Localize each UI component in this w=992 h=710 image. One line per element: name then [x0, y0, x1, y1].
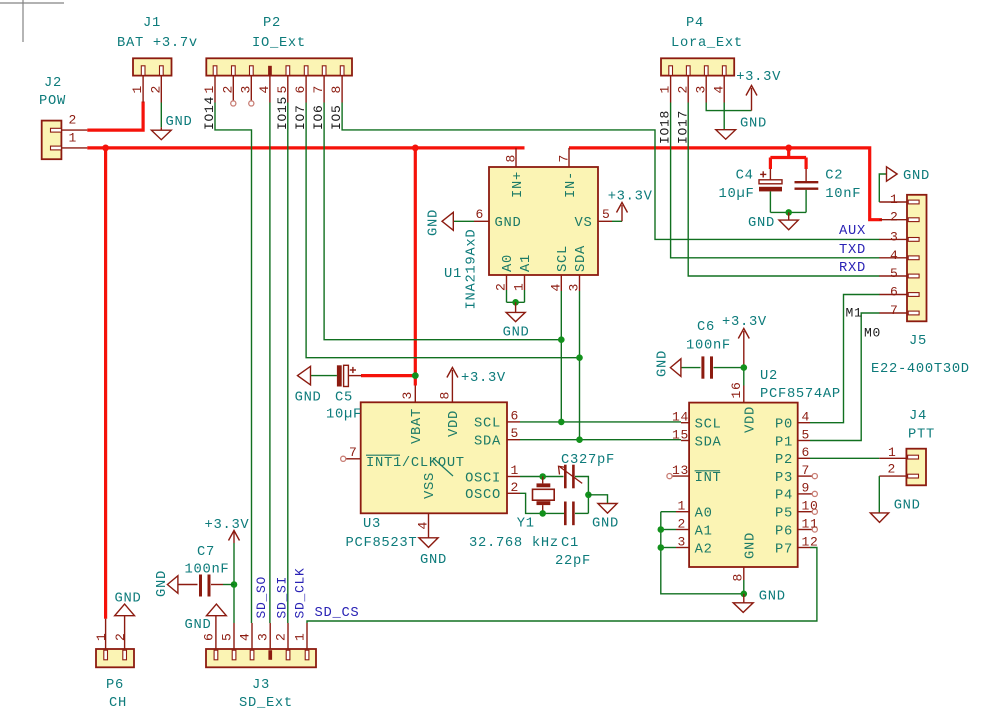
junction SCL	[558, 419, 565, 426]
junction U2 gnd	[741, 591, 748, 598]
svg-text:+3.3V: +3.3V	[722, 315, 767, 330]
svg-text:2: 2	[220, 85, 235, 94]
svg-text:+3.3V: +3.3V	[205, 518, 250, 533]
junction C7	[231, 581, 238, 588]
svg-text:OSCI: OSCI	[465, 471, 501, 486]
connector J5 E22-400T30D	[907, 195, 927, 321]
wire thick red C5 to VBAT	[361, 374, 415, 377]
pin J3.2 stub	[287, 623, 289, 649]
svg-text:15: 15	[672, 427, 689, 442]
wire SCL vertical U1.4 down	[560, 291, 562, 422]
svg-text:+3.3V: +3.3V	[608, 190, 653, 205]
svg-text:2: 2	[890, 210, 899, 225]
svg-text:P7: P7	[775, 542, 793, 557]
ground symbol C7 left arrow	[167, 576, 178, 594]
svg-text:10nF: 10nF	[825, 187, 861, 202]
ground symbol Y1	[598, 504, 617, 514]
net label SD_SI	[275, 576, 290, 619]
wire P4.4 to gnd	[723, 103, 725, 130]
pin U1.8 IN+	[515, 148, 517, 167]
svg-text:13: 13	[672, 463, 689, 478]
svg-text:5: 5	[220, 632, 235, 641]
wire IO6 P2.7 to SCL node	[324, 103, 561, 340]
pin P6.1 stub	[105, 619, 107, 649]
svg-text:PCF8523T: PCF8523T	[346, 536, 418, 551]
svg-text:IN-: IN-	[564, 171, 579, 198]
svg-text:1: 1	[94, 632, 109, 641]
junction IO6-SCL	[558, 336, 565, 343]
junction A1	[658, 526, 665, 533]
svg-text:7: 7	[556, 154, 571, 163]
svg-text:4: 4	[548, 283, 563, 292]
pin U2.16 VDD	[743, 386, 745, 403]
pin P2.5 stub	[287, 76, 289, 103]
junction VBAT-C5	[412, 372, 419, 379]
svg-text:VDD: VDD	[447, 410, 462, 437]
pin J5.1 stub	[879, 201, 907, 203]
svg-text:7: 7	[890, 303, 899, 318]
svg-text:4: 4	[711, 85, 726, 94]
power +3.3V U1	[621, 205, 623, 221]
svg-text:3: 3	[238, 85, 253, 94]
svg-text:GND: GND	[295, 391, 322, 406]
svg-text:VBAT: VBAT	[410, 408, 425, 444]
net label SD_SO	[254, 576, 269, 619]
svg-text:J2: J2	[44, 76, 62, 91]
connector J2 POW	[42, 121, 62, 160]
svg-text:1: 1	[512, 282, 527, 291]
svg-text:C1: C1	[561, 536, 579, 551]
power +3.3V P4	[751, 88, 753, 111]
capacitor C4	[769, 169, 771, 180]
svg-text:1: 1	[678, 499, 687, 514]
svg-text:SDA: SDA	[574, 245, 589, 272]
svg-text:3: 3	[400, 391, 415, 400]
svg-text:22pF: 22pF	[555, 554, 591, 569]
pin P4.4 stub	[723, 76, 725, 103]
svg-text:3: 3	[567, 283, 582, 292]
svg-text:P2: P2	[775, 453, 793, 468]
svg-text:12: 12	[802, 534, 819, 549]
svg-text:8: 8	[329, 85, 344, 94]
svg-text:GND: GND	[894, 498, 921, 513]
svg-text:P2: P2	[263, 16, 281, 31]
pin P2.3 stub nc	[250, 76, 252, 101]
svg-text:A0: A0	[501, 254, 516, 272]
wire IO15 P2.5 to J3.2	[287, 103, 289, 624]
ground symbol U1.6	[442, 212, 453, 230]
svg-text:PCF8574AP: PCF8574AP	[760, 387, 841, 402]
pin U2.5 P1	[798, 440, 810, 442]
svg-text:GND: GND	[759, 590, 786, 605]
pin U2.3 A2	[676, 547, 689, 549]
wire A0 A1 A2 to gnd loop	[661, 512, 744, 594]
frame corner lines	[0, 2, 64, 4]
svg-text:E22-400T30D: E22-400T30D	[871, 362, 970, 377]
connector P4 Lora_Ext	[661, 58, 734, 75]
junction IO7-SDA	[576, 354, 583, 361]
wire IO5 P2.8 to J5.3 AUX	[342, 103, 879, 240]
svg-text:4: 4	[802, 410, 811, 425]
pin U1.3 SDA	[579, 275, 581, 291]
pin U2.2 A1	[676, 529, 689, 531]
svg-text:1: 1	[69, 130, 78, 145]
wire thick red tee to C4 C2	[787, 148, 790, 158]
net label IO15	[275, 96, 290, 130]
svg-text:VS: VS	[575, 216, 593, 231]
svg-text:SCL: SCL	[474, 417, 501, 432]
wire OSCO to C1	[520, 493, 565, 513]
pin U1.2 A0	[506, 275, 508, 290]
junction A0A1	[512, 299, 519, 306]
svg-text:A1: A1	[519, 254, 534, 272]
svg-text:14: 14	[672, 410, 689, 425]
ground symbol J3.6 up arrow	[207, 604, 227, 616]
pin P2.7 stub	[323, 76, 325, 103]
pin J5.7 stub	[879, 312, 907, 314]
svg-text:Y1: Y1	[517, 517, 535, 532]
svg-text:J3: J3	[252, 678, 270, 693]
svg-text:SCL: SCL	[556, 245, 571, 272]
svg-text:GND: GND	[748, 216, 775, 231]
capacitor C1	[564, 502, 567, 526]
svg-text:2: 2	[69, 113, 78, 128]
pin U3.4 VSS	[428, 513, 430, 537]
ground symbol U3.4	[419, 538, 438, 548]
pin U3.1 OSCI	[507, 476, 520, 478]
ground symbol J5.1 right arrow	[887, 167, 898, 181]
junction red node	[785, 145, 792, 152]
wire thick red left drop to P6.1	[104, 148, 107, 619]
pin J3.1 stub	[306, 623, 308, 649]
svg-text:6: 6	[293, 85, 308, 94]
svg-text:2: 2	[675, 85, 690, 94]
connector P6 CH	[96, 649, 134, 667]
ground symbol U1 A0A1	[515, 302, 517, 312]
crystal Y1	[542, 477, 544, 484]
svg-text:4: 4	[257, 85, 272, 94]
pin P4.2 stub	[687, 76, 689, 103]
svg-text:VDD: VDD	[743, 406, 758, 433]
pin U2.1 A0	[676, 511, 689, 513]
svg-text:7: 7	[311, 85, 326, 94]
svg-text:1: 1	[890, 192, 899, 207]
pin U1.7 IN-	[568, 148, 570, 167]
svg-text:3: 3	[693, 85, 708, 94]
wire VBUS thick red J2.1 to U1 IN+	[87, 146, 524, 149]
svg-text:C7: C7	[197, 545, 215, 560]
trimmer capacitor C3	[564, 465, 567, 489]
svg-text:U3: U3	[363, 517, 381, 532]
svg-text:P0: P0	[775, 418, 793, 433]
junction crystal bottom	[539, 510, 546, 517]
svg-text:1: 1	[202, 85, 217, 94]
svg-text:2: 2	[511, 480, 520, 495]
ground symbol U2.8	[743, 594, 745, 603]
wire VBUS thick red U1 IN- to J5.2	[569, 148, 882, 220]
svg-text:CH: CH	[109, 696, 127, 710]
svg-text:9: 9	[802, 481, 811, 496]
svg-text:2: 2	[888, 462, 897, 477]
junction crystal top	[539, 473, 546, 480]
pin J4.2 stub	[879, 475, 906, 477]
pin U2.7 P3 nc	[798, 475, 812, 477]
junction A2	[658, 544, 665, 551]
svg-text:A2: A2	[695, 542, 713, 557]
pin U3.6 SCL	[507, 421, 520, 423]
wire J5.1 to gnd	[879, 174, 886, 202]
svg-text:J1: J1	[143, 16, 161, 31]
connector J3 SD_Ext	[206, 649, 316, 667]
wire C3 right to gnd node	[575, 477, 588, 514]
junction red node	[102, 145, 109, 152]
wire M0 J5.7 to U2 P1	[810, 313, 880, 441]
wire thick red J2.2 to J1.1	[87, 102, 143, 131]
pin J5.5 stub	[879, 275, 907, 277]
pin U2.6 P2	[798, 457, 810, 459]
pin U1.6 GND	[474, 220, 489, 222]
svg-text:6: 6	[201, 632, 216, 641]
svg-text:3: 3	[678, 534, 687, 549]
svg-text:INT1/CLKOUT: INT1/CLKOUT	[366, 455, 465, 471]
wire SD_CS J3.1 to U2 P7	[307, 548, 817, 624]
svg-text:1: 1	[658, 85, 673, 94]
wire thick red VBAT riser	[414, 148, 417, 386]
svg-text:8: 8	[438, 391, 453, 400]
svg-text:SD_CS: SD_CS	[315, 606, 360, 621]
svg-text:BAT +3.7v: BAT +3.7v	[117, 36, 198, 51]
wire IO7 P2.6 to SDA node	[306, 103, 579, 358]
svg-text:+3.3V: +3.3V	[736, 70, 781, 85]
svg-text:M1: M1	[846, 306, 863, 321]
svg-text:C5: C5	[335, 391, 353, 406]
svg-text:6: 6	[476, 207, 485, 222]
power +3.3V U3	[451, 370, 453, 386]
svg-text:32.768 kHz: 32.768 kHz	[469, 535, 559, 551]
svg-text:U1: U1	[444, 267, 462, 282]
pin U2.4 P0	[798, 422, 810, 424]
svg-text:SD_SI: SD_SI	[275, 576, 290, 619]
junction SDA	[576, 436, 583, 443]
wire J3.5 to C7 node	[233, 543, 235, 623]
svg-text:2: 2	[274, 632, 289, 641]
pin J5.4 stub	[879, 257, 907, 259]
svg-text:10µF: 10µF	[719, 187, 755, 202]
svg-text:10µF: 10µF	[326, 408, 362, 423]
svg-text:GND: GND	[592, 517, 619, 532]
svg-text:SD_Ext: SD_Ext	[239, 696, 293, 710]
svg-text:RXD: RXD	[839, 261, 866, 276]
junction red node	[412, 145, 419, 152]
svg-text:GND: GND	[656, 350, 671, 377]
ground symbol P4.4	[716, 130, 736, 140]
pin J4.1 stub	[879, 457, 906, 459]
pin J1.1 stub	[142, 76, 144, 103]
wire J4.2 to gnd	[878, 476, 880, 513]
junction C3C1 gnd	[585, 492, 592, 499]
svg-text:5: 5	[890, 266, 899, 281]
pin J5.6 stub	[879, 294, 907, 296]
wire IO14 P2.1 to J3.4	[215, 103, 252, 624]
svg-text:P5: P5	[775, 507, 793, 522]
pin U2.10 P5 nc	[798, 511, 812, 513]
pin J3.6 stub gnd	[215, 616, 217, 649]
svg-text:6: 6	[511, 408, 520, 423]
svg-text:8: 8	[503, 154, 518, 163]
svg-text:5: 5	[602, 207, 611, 222]
svg-text:GND: GND	[743, 532, 758, 559]
svg-text:TXD: TXD	[839, 243, 866, 258]
svg-text:P4: P4	[686, 16, 704, 31]
svg-text:PTT: PTT	[908, 428, 935, 443]
svg-text:P1: P1	[775, 435, 793, 450]
svg-text:SDA: SDA	[695, 435, 722, 450]
svg-text:GND: GND	[166, 115, 193, 130]
connector P2 IO_Ext	[206, 58, 352, 75]
svg-text:GND: GND	[427, 209, 442, 236]
svg-text:AUX: AUX	[839, 224, 866, 239]
pin P2.1 stub	[214, 76, 216, 103]
svg-text:1: 1	[511, 463, 520, 478]
pin P2.8 stub	[341, 76, 343, 103]
svg-text:M0: M0	[864, 326, 881, 341]
svg-text:C4: C4	[736, 169, 754, 184]
svg-text:OSCO: OSCO	[465, 488, 501, 503]
pin U2.12 P7	[798, 547, 810, 549]
svg-text:IN+: IN+	[511, 171, 526, 198]
pin U2.11 P6 nc	[798, 529, 812, 531]
pin J5.3 stub	[879, 238, 907, 240]
pin J1.2 stub	[160, 76, 162, 103]
svg-text:2: 2	[113, 632, 128, 641]
svg-text:GND: GND	[420, 553, 447, 568]
svg-text:100nF: 100nF	[185, 563, 230, 578]
svg-text:+3.3V: +3.3V	[461, 371, 506, 386]
svg-text:C2: C2	[825, 169, 843, 184]
svg-text:5: 5	[275, 85, 290, 94]
wire SDA bus U3.5 to U2.15	[520, 439, 681, 441]
pin U3.2 OSCO	[507, 492, 520, 494]
net label IO7	[293, 104, 308, 130]
svg-text:6: 6	[802, 445, 811, 460]
svg-text:2: 2	[678, 516, 687, 531]
wire A0-A1 join	[507, 301, 525, 303]
power +3.3V J3.5	[233, 532, 235, 543]
svg-text:IO_Ext: IO_Ext	[252, 36, 306, 51]
svg-text:2: 2	[494, 282, 509, 291]
pin J3.3 stub	[269, 623, 271, 649]
wire gnd branch	[588, 495, 607, 504]
wire U2 P2 to J4.1	[810, 457, 879, 459]
ground symbol C4C2	[788, 212, 790, 220]
svg-text:GND: GND	[495, 216, 522, 231]
net label IO14	[202, 96, 217, 130]
svg-text:SD_CLK: SD_CLK	[293, 567, 308, 618]
ground symbol J1.2	[151, 130, 171, 140]
pin P2.6 stub	[305, 76, 307, 103]
net label IO6	[311, 104, 326, 130]
svg-text:C6: C6	[697, 320, 715, 335]
net label SD_CLK	[293, 567, 308, 618]
wire IO17 P4.2 to J5.5 RXD	[688, 103, 879, 277]
svg-text:5: 5	[802, 427, 811, 442]
junction C4C2	[785, 209, 792, 216]
svg-text:P6: P6	[775, 524, 793, 539]
svg-text:P3: P3	[775, 471, 793, 486]
ground symbol J4.2	[870, 513, 888, 523]
svg-text:GND: GND	[115, 592, 142, 607]
power +3.3V U2	[743, 331, 745, 368]
svg-text:VSS: VSS	[423, 472, 438, 499]
pin U2.8 GND	[743, 567, 745, 580]
pin J5.2 stub	[879, 219, 907, 221]
capacitor C2	[805, 169, 807, 181]
svg-text:POW: POW	[39, 94, 66, 109]
wire OSCI to C3	[520, 476, 564, 478]
capacitor C5	[337, 365, 342, 386]
svg-text:7: 7	[802, 463, 811, 478]
svg-text:1: 1	[130, 85, 145, 94]
svg-text:SD_SO: SD_SO	[254, 576, 269, 619]
svg-text:GND: GND	[903, 169, 930, 184]
svg-text:J4: J4	[909, 409, 927, 424]
svg-text:J5: J5	[909, 334, 927, 349]
pin U1.4 SCL	[560, 275, 562, 291]
svg-text:16: 16	[729, 381, 744, 398]
svg-text:27pF: 27pF	[579, 453, 615, 468]
pin U1.5 VS	[598, 220, 612, 222]
pin U2.15 SDA	[681, 440, 689, 442]
svg-text:5: 5	[511, 426, 520, 441]
net label IO5	[329, 104, 344, 130]
svg-text:3: 3	[256, 632, 271, 641]
junction C6-VDD	[741, 364, 748, 371]
svg-text:GND: GND	[740, 117, 767, 132]
connector J4 PTT	[906, 449, 926, 486]
svg-text:INA219AxD: INA219AxD	[465, 229, 480, 310]
pin P2.4 stub	[269, 76, 271, 103]
svg-text:SDA: SDA	[474, 435, 501, 450]
svg-text:GND: GND	[185, 618, 212, 633]
pin U2.13 INT nc	[672, 475, 689, 477]
svg-text:4: 4	[415, 521, 430, 530]
pin P6.2 stub gnd	[124, 616, 126, 649]
wire P2.4 to J3.3	[269, 103, 271, 624]
pin P4.1 stub	[670, 76, 672, 103]
wire SCL bus U3.6 to U2.14	[520, 421, 681, 423]
svg-text:7: 7	[349, 445, 358, 460]
svg-text:U2: U2	[760, 369, 778, 384]
pin U3.5 SDA	[507, 439, 520, 441]
svg-text:11: 11	[802, 516, 819, 531]
svg-text:C3: C3	[561, 453, 579, 468]
svg-text:1: 1	[888, 445, 897, 460]
svg-text:A0: A0	[695, 507, 713, 522]
svg-text:A1: A1	[695, 524, 713, 539]
svg-text:GND: GND	[503, 326, 530, 341]
pin P4.3 stub	[705, 76, 707, 103]
pin J3.5 stub	[233, 623, 235, 649]
svg-text:100nF: 100nF	[686, 339, 731, 354]
svg-text:3: 3	[890, 229, 899, 244]
IC U3 PCF8523T body	[361, 402, 507, 513]
pin U3.3 VBAT	[414, 386, 416, 403]
pin U2.9 P4 nc	[798, 493, 812, 495]
svg-text:4: 4	[238, 632, 253, 641]
svg-text:P4: P4	[775, 489, 793, 504]
svg-text:GND: GND	[155, 570, 170, 597]
wire P4.3 to +3.3V	[706, 103, 751, 111]
